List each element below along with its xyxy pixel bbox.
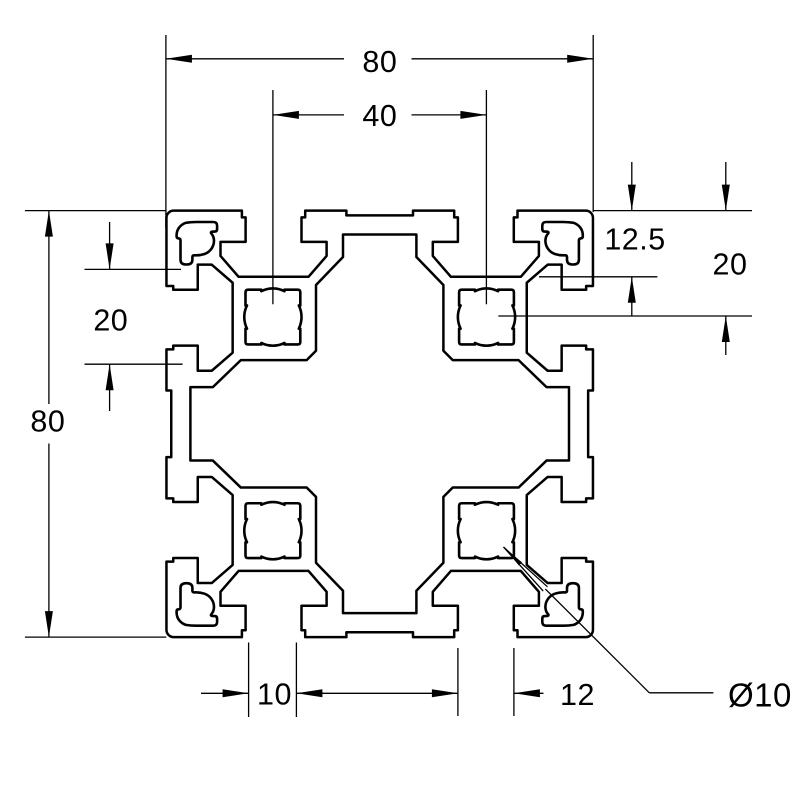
corner comma hole BR xyxy=(542,583,583,626)
dim 80 top arrows xyxy=(166,55,192,63)
svg-text:80: 80 xyxy=(30,404,65,438)
corner comma hole TL xyxy=(177,222,218,265)
leader O10: lines xyxy=(545,589,649,693)
svg-text:Ø10: Ø10 xyxy=(728,676,792,713)
dim 80 top: extension lines xyxy=(165,35,167,228)
svg-text:12: 12 xyxy=(560,678,595,712)
profile outer contour with 8 T-slots xyxy=(166,211,593,637)
svg-text:80: 80 xyxy=(362,45,397,79)
corner bore hole 1 xyxy=(244,288,301,345)
svg-text:40: 40 xyxy=(362,99,397,133)
dim 20 right arrows xyxy=(722,185,730,211)
corner comma hole BL xyxy=(177,583,218,626)
dim 12.5: arrow stems xyxy=(631,162,633,211)
dim 12.5 arrows xyxy=(628,185,636,211)
dim 12: extension lines xyxy=(457,648,459,716)
dim 12: dimension line tail xyxy=(514,692,544,694)
dim 20 left arrows xyxy=(106,243,114,269)
dim 80 left: extension lines xyxy=(25,210,166,212)
svg-text:20: 20 xyxy=(713,247,748,281)
dim 12 arrows xyxy=(432,689,458,697)
dim 40: dimension line xyxy=(273,114,344,116)
dim 20 left: arrow stems xyxy=(109,222,111,269)
dim 40: extension lines xyxy=(272,90,274,304)
svg-text:12.5: 12.5 xyxy=(604,222,665,256)
dim 10 arrows xyxy=(223,689,249,697)
svg-text:20: 20 xyxy=(93,303,128,337)
dim 20 right: arrow stems xyxy=(725,162,727,211)
corner bore hole 2 xyxy=(458,288,515,345)
dim 80 top: dimension line xyxy=(166,58,344,60)
dim 20 left: reference lines xyxy=(85,268,182,270)
dim 10: dimension line xyxy=(201,692,249,694)
svg-text:10: 10 xyxy=(257,677,292,711)
leader O10 arrow tip xyxy=(504,547,523,566)
corner comma hole TR xyxy=(542,222,583,265)
leader O10 open arrowhead barbs xyxy=(504,547,548,587)
dim 10: extension lines xyxy=(248,643,250,718)
dim 12.5: reference lines xyxy=(593,210,752,212)
corner bore hole 4 xyxy=(458,502,515,559)
central cross cavity xyxy=(190,235,569,614)
dim 20 right: reference line xyxy=(498,315,752,317)
dim 40 arrows xyxy=(273,111,299,119)
dim 80 left: dimension line xyxy=(48,211,50,404)
dim 80 left arrows xyxy=(45,211,53,237)
corner bore hole 3 xyxy=(244,502,301,559)
